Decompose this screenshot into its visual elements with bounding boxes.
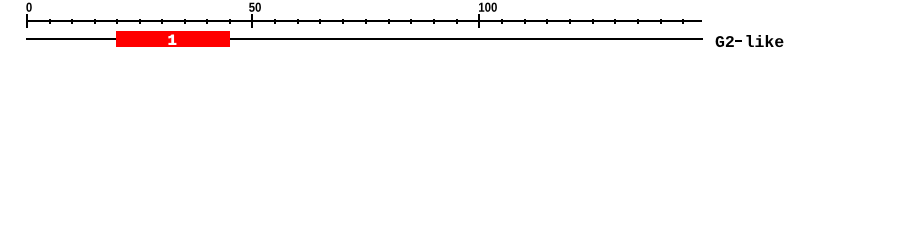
ruler minor tick at 110 xyxy=(524,19,526,24)
ruler minor tick at 145 xyxy=(682,19,684,24)
ruler major tick at 50 xyxy=(251,14,253,28)
ruler scale label 50 xyxy=(249,3,261,12)
ruler scale label 100 xyxy=(479,3,497,12)
ruler minor tick at 20 xyxy=(116,19,118,24)
ruler minor tick at 105 xyxy=(501,19,503,24)
ruler minor tick at 90 xyxy=(433,19,435,24)
protein backbone line xyxy=(26,38,703,40)
family name label part "like" xyxy=(746,35,783,47)
ruler minor tick at 95 xyxy=(456,19,458,24)
ruler major tick at 100 xyxy=(478,14,480,28)
ruler minor tick at 40 xyxy=(206,19,208,24)
ruler minor tick at 5 xyxy=(49,19,51,24)
ruler minor tick at 135 xyxy=(637,19,639,24)
ruler minor tick at 45 xyxy=(229,19,231,24)
ruler minor tick at 15 xyxy=(94,19,96,24)
ruler minor tick at 120 xyxy=(569,19,571,24)
ruler major tick at 0 xyxy=(26,14,28,28)
ruler minor tick at 70 xyxy=(342,19,344,24)
domain box 1 (G2-like domain) xyxy=(116,31,230,47)
ruler minor tick at 115 xyxy=(546,19,548,24)
ruler minor tick at 65 xyxy=(319,19,321,24)
domain number label 1 xyxy=(169,35,176,45)
ruler scale label 0 xyxy=(26,3,31,12)
ruler minor tick at 85 xyxy=(410,19,412,24)
ruler minor tick at 125 xyxy=(592,19,594,24)
ruler minor tick at 25 xyxy=(139,19,141,24)
ruler minor tick at 140 xyxy=(660,19,662,24)
family name label part "G2" xyxy=(716,36,734,47)
ruler minor tick at 60 xyxy=(297,19,299,24)
ruler minor tick at 30 xyxy=(161,19,163,24)
ruler minor tick at 35 xyxy=(184,19,186,24)
ruler minor tick at 55 xyxy=(274,19,276,24)
ruler minor tick at 80 xyxy=(388,19,390,24)
ruler axis line xyxy=(26,20,702,22)
ruler minor tick at 75 xyxy=(365,19,367,24)
ruler minor tick at 10 xyxy=(71,19,73,24)
ruler minor tick at 130 xyxy=(614,19,616,24)
family name label hyphen xyxy=(735,40,742,42)
